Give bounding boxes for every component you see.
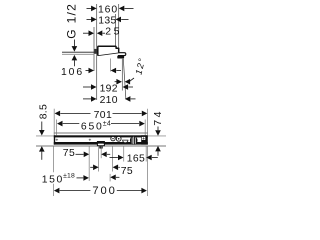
bar right block bbox=[141, 135, 148, 144]
spout diagonal underside bbox=[98, 53, 119, 56]
vert ext below bar x101.2 bbox=[100, 146, 102, 158]
thermostat knob bbox=[130, 136, 138, 145]
svg-text:G 1/2: G 1/2 bbox=[64, 3, 78, 39]
svg-text:150: 150 bbox=[42, 175, 64, 186]
bar top edge bbox=[54, 135, 148, 137]
ext 650-right (x145.2) bbox=[144, 120, 146, 136]
angle line slanted F2 bbox=[123, 59, 126, 100]
svg-text:106: 106 bbox=[61, 67, 84, 78]
svg-text:75: 75 bbox=[121, 166, 133, 177]
tick in right block bbox=[142, 137, 144, 139]
ext bar-top-left gray bbox=[36, 135, 54, 137]
dim 650 +-4 bbox=[57, 121, 145, 133]
svg-text:±18: ±18 bbox=[63, 173, 75, 180]
vert ext below bar x112.6 bbox=[112, 146, 114, 171]
svg-text:701: 701 bbox=[94, 110, 113, 121]
circle small bbox=[111, 136, 115, 140]
ext 650-left (x56.6) bbox=[56, 120, 58, 136]
svg-text:25: 25 bbox=[105, 26, 122, 37]
shelf line gray bbox=[54, 132, 148, 134]
svg-text:650: 650 bbox=[81, 121, 104, 132]
dim 150+-18 bbox=[42, 173, 120, 186]
ext bar-top-right gray bbox=[148, 135, 166, 137]
bar bottom edge bbox=[54, 142, 148, 145]
extension line wall-main (x96.7) bbox=[96, 4, 98, 100]
extension line body-right (x115.4) bbox=[114, 14, 116, 47]
dim 165 bbox=[110, 153, 158, 164]
svg-text:165: 165 bbox=[127, 153, 145, 164]
vert ext below bar left x53.6 bbox=[53, 146, 55, 172]
vert ext below bar x146.2 bbox=[145, 146, 147, 161]
dim 8.5 left bbox=[39, 104, 50, 160]
inlet nub bbox=[94, 49, 97, 54]
aerator bbox=[117, 56, 124, 59]
vert ext below bar x89.2 bbox=[88, 146, 90, 181]
dim 75 mid row bbox=[90, 165, 133, 177]
notch half-circle bbox=[123, 140, 128, 143]
spout front block bbox=[97, 141, 105, 146]
dim 192 bbox=[83, 84, 133, 95]
extension line wall-left (x94) bbox=[93, 27, 95, 71]
spout arm bbox=[118, 53, 126, 56]
svg-text:160: 160 bbox=[98, 5, 118, 16]
pipe bottom line gray bbox=[62, 53, 94, 55]
dim 210 bbox=[83, 95, 136, 106]
vert ext below bar x123.7 bbox=[123, 146, 125, 161]
dim 106 bbox=[61, 67, 121, 78]
svg-text:700: 700 bbox=[92, 185, 116, 197]
vert ext x110.1 for 150 bbox=[109, 174, 111, 182]
dim 700 bbox=[54, 185, 147, 197]
dim 135 bbox=[87, 16, 129, 27]
bar underline gray bbox=[36, 145, 166, 147]
vert ext below bar right x147.6 bbox=[147, 146, 149, 196]
spout body outline bbox=[98, 46, 119, 56]
vert ext below bar x98.6 bbox=[98, 146, 100, 171]
svg-text:74: 74 bbox=[153, 109, 164, 125]
extension line neck-right (x118.7) bbox=[118, 4, 120, 49]
pipe top line bbox=[62, 51, 94, 53]
angle line vertical F1 bbox=[121, 59, 123, 91]
svg-text:192: 192 bbox=[100, 84, 118, 95]
dim 160 bbox=[87, 5, 134, 16]
ext 701-right (x147.6) bbox=[147, 109, 149, 136]
bar left cap bbox=[54, 135, 55, 144]
svg-text:135: 135 bbox=[98, 16, 117, 27]
circle with dot bbox=[116, 136, 121, 141]
tick 1 on bar bbox=[56, 139, 58, 141]
svg-text:±4: ±4 bbox=[103, 121, 111, 128]
svg-text:75: 75 bbox=[63, 148, 75, 159]
dim 75 left row bbox=[63, 148, 110, 159]
ext 701-left (x54.2 above bar) bbox=[53, 109, 55, 136]
svg-text:210: 210 bbox=[100, 95, 118, 106]
dim 74 right bbox=[153, 109, 164, 156]
label G 1/2 bbox=[64, 3, 78, 66]
svg-text:8.5: 8.5 bbox=[39, 104, 50, 119]
angle 12 deg arrows bbox=[115, 78, 134, 85]
extension line spout-mid gray (x110.6) bbox=[110, 59, 112, 72]
tick 2 on bar bbox=[89, 139, 91, 141]
dim 25 bbox=[83, 26, 122, 37]
dim 701 bbox=[55, 110, 148, 121]
